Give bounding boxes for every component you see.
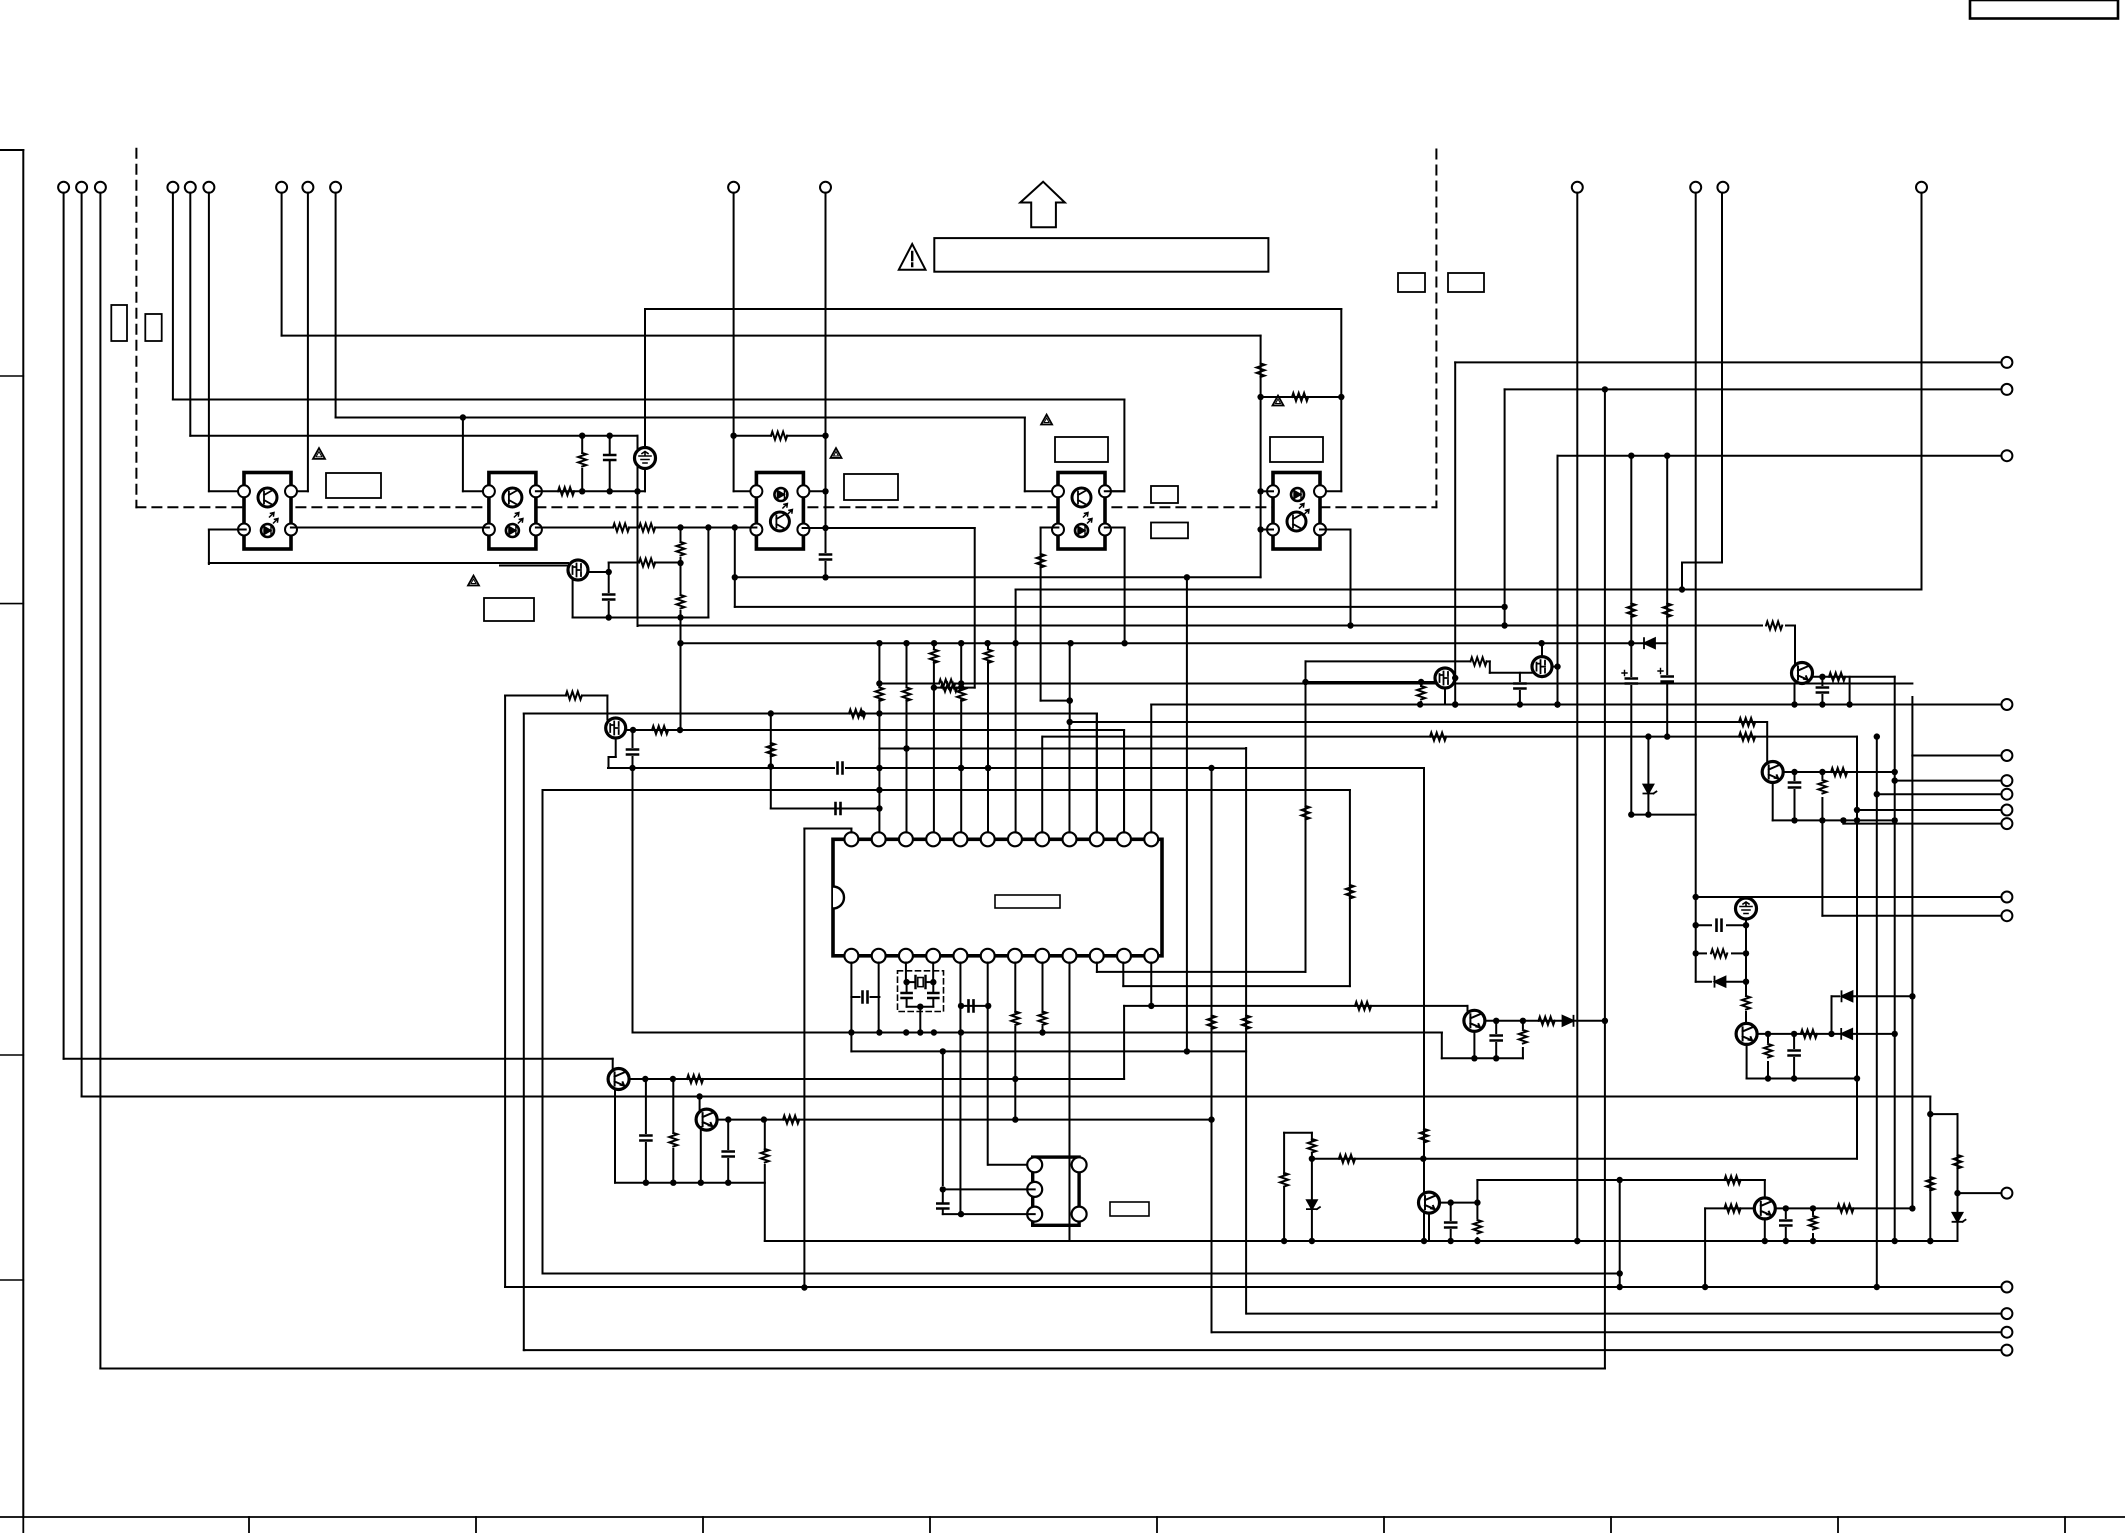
arrow up symbol — [1020, 182, 1065, 228]
net y397 — [1261, 394, 1345, 400]
warning triangle w2 — [468, 576, 479, 586]
net B — [1505, 386, 2002, 392]
resistor R26 h — [566, 692, 582, 700]
wire X2 mid — [940, 1186, 1035, 1192]
resistor R31 h — [1471, 657, 1487, 665]
wire T1 down — [63, 193, 65, 1059]
dashed barrier horizontal — [136, 506, 1436, 508]
wire T14 corner — [1679, 563, 1722, 593]
terminal circle P14 — [2001, 1308, 2012, 1319]
net y563b — [609, 562, 681, 564]
net A — [1455, 361, 2001, 363]
resistor Rg h — [1693, 949, 1750, 957]
wire T4 down — [172, 193, 174, 400]
net y1368 — [100, 1368, 1605, 1370]
wire Q2 drain drop pin11 — [1123, 730, 1125, 837]
resistor R111 v — [1764, 1034, 1772, 1082]
terminal circle S1 — [2001, 750, 2012, 761]
capacitor C1 — [603, 595, 614, 621]
label rect R1 — [1398, 273, 1425, 292]
dashed barrier vertical right — [1435, 150, 1437, 508]
transistor Q8 — [1464, 1010, 1485, 1031]
capacitor C111 — [1789, 1034, 1800, 1082]
resistor R12 h — [771, 432, 787, 440]
ic U1 top pin wires — [851, 705, 1151, 833]
wire PC1 RB to PC2 LB — [291, 527, 489, 529]
wire Q7 emitter — [717, 1116, 1215, 1122]
terminal circle S3 — [2001, 789, 2012, 800]
connector pin circle T11 — [820, 182, 831, 193]
capacitor Cm766 h — [838, 763, 843, 774]
wire x708 drop — [707, 528, 709, 618]
capacitor C34 — [1514, 673, 1525, 705]
wire PC4 RT riser — [1105, 490, 1125, 492]
net y915 — [1822, 915, 2001, 917]
pin4 column — [930, 643, 938, 832]
net m808 — [771, 805, 883, 811]
connector X2 pin 4 — [1072, 1157, 1087, 1172]
terminal circle S5 — [2001, 818, 2012, 829]
net y814 — [1631, 811, 1695, 817]
ground G2 — [1736, 898, 1757, 919]
connector pin circle T1 — [58, 182, 69, 193]
resistor R27 h — [941, 684, 957, 692]
net q67 rail — [615, 1182, 765, 1184]
net m768 — [608, 765, 1424, 771]
resistor R81 h — [1339, 1155, 1355, 1163]
net y714 drop pin10 — [1096, 714, 1098, 837]
pin5 column — [957, 643, 965, 832]
resistor R23a h — [613, 524, 629, 532]
wire x1247 drop — [1242, 748, 1250, 1314]
net y309 drop to U6 pin — [1319, 309, 1342, 491]
transistor Q2 — [606, 718, 626, 738]
connector pin circle T3 — [95, 182, 106, 193]
wire PC1 LB — [209, 530, 246, 565]
zener D2 — [1643, 737, 1656, 815]
net B drop — [1504, 389, 1506, 625]
wire Q4 right — [1552, 663, 1561, 669]
resistor R123 v — [1809, 1208, 1817, 1244]
connector X2 pin 3 — [1027, 1207, 1042, 1222]
warning note box — [934, 238, 1268, 272]
wire x1876 seg — [1874, 733, 1880, 1287]
wire x1260 drop — [1257, 336, 1263, 578]
ic pin7 wire — [1011, 963, 1019, 1120]
net y1096 — [82, 1093, 1931, 1099]
wire Q11 emitter — [1757, 1031, 1895, 1037]
connector pin circle T8 — [302, 182, 313, 193]
label U1 — [995, 895, 1060, 908]
net m683 — [876, 680, 1912, 686]
terminal circle CC — [2001, 450, 2012, 461]
wire Q7 base drop — [699, 1097, 701, 1113]
wire Q13 base — [1794, 626, 1796, 664]
resistor R24 h — [849, 710, 865, 718]
wire T15 down — [1921, 193, 1923, 589]
resistor R121 h — [1724, 1204, 1740, 1212]
wire Q4 top — [1541, 643, 1543, 656]
terminal circle B — [2001, 384, 2012, 395]
label rect R3 — [1151, 486, 1178, 503]
label rect R2 — [1448, 273, 1484, 292]
transistor Q1 — [568, 560, 588, 580]
wire x1957 drop — [1953, 1114, 1966, 1241]
resistor R131 h — [1829, 673, 1845, 681]
connector pin circle T15 — [1916, 182, 1927, 193]
wire x1186 seg — [1186, 577, 1188, 1051]
terminal circle G2a — [2001, 892, 2012, 903]
resistor R124 h — [1837, 1204, 1853, 1212]
net y1208 base — [1705, 1207, 1754, 1209]
wire T10 down — [730, 193, 736, 492]
wire PC3 RB chain — [803, 525, 975, 688]
resistor R62 v — [669, 1079, 677, 1186]
wire x523 drop — [523, 714, 525, 1351]
wire x770 seg — [767, 714, 775, 809]
net s810 — [1857, 809, 2001, 811]
net m706 — [1151, 701, 2001, 707]
wire PC2 RB to PC3 LB — [536, 524, 757, 530]
capacitor C91 — [1445, 1203, 1456, 1241]
wire Q6 bottom — [614, 1090, 616, 1183]
net yC — [336, 414, 1025, 420]
resistor Rm22 h — [1739, 718, 1755, 726]
net m790 — [543, 787, 1350, 793]
wire Q2 src cap — [609, 738, 616, 768]
label rect R4 — [1151, 523, 1188, 539]
net y820 — [1773, 817, 1895, 823]
crystal X1 — [903, 976, 936, 988]
resistor R32 v — [1417, 682, 1425, 705]
transistor Q3 — [1435, 668, 1455, 688]
net yB — [173, 399, 1125, 401]
net y1241 — [765, 1238, 1958, 1244]
net y1350 — [525, 1349, 2002, 1351]
wire Q3 bottom — [1444, 688, 1446, 705]
capacitor C131 — [1817, 677, 1828, 705]
label Q1 — [484, 598, 534, 621]
wire x505 drop — [504, 696, 506, 1288]
connector pin circle T2 — [76, 182, 87, 193]
wire x1857 seg — [1854, 737, 1860, 1159]
capacitor C11 on T11 — [820, 555, 831, 581]
wire Q12 emitter — [1775, 1205, 1912, 1211]
wire x1705 corner — [1704, 1208, 1706, 1287]
capacitor C2 — [627, 730, 638, 771]
wire Q8 bottom — [1471, 1032, 1477, 1062]
net y661 — [1306, 660, 1471, 662]
frame border left — [0, 150, 23, 1517]
ic U1 bottom pins — [844, 949, 1158, 963]
wire PC5 RB chain — [1320, 530, 1351, 626]
net yD drop — [637, 436, 639, 626]
wire x1912 seg — [1911, 697, 1913, 756]
connector pin circle T4 — [167, 182, 178, 193]
wire Q2 drain — [626, 727, 1124, 733]
warning triangle w1 — [313, 448, 325, 459]
wire Q1 source loop — [573, 579, 709, 618]
wire x804 long — [801, 829, 807, 1291]
wire stair Q8 — [1441, 1033, 1443, 1059]
wire PC5 LB stub — [1257, 526, 1273, 532]
wire T2 down — [81, 193, 83, 1097]
wire Q8 emitter — [1485, 1018, 1605, 1024]
wire Q3 gate — [1302, 679, 1435, 685]
wire PC4 LB chain — [1041, 528, 1073, 704]
ic U1 bottom pin wires — [851, 963, 1151, 1242]
terminal circle P16 — [2001, 1345, 2012, 1356]
wire T14 down — [1721, 193, 1723, 563]
capacitor C121 — [1780, 1208, 1791, 1244]
resistor R41 v — [1037, 554, 1045, 568]
capacitor C61 — [640, 1079, 651, 1186]
wire pin6 to X1 — [988, 1164, 1034, 1166]
net m722 — [1067, 719, 1767, 725]
wire gnd2 stem — [1742, 919, 1750, 1023]
net m748 — [879, 745, 1246, 751]
n-link x1284 x1312 — [1280, 1133, 1312, 1241]
net b997 cap — [851, 992, 879, 1003]
diode D81 — [1563, 1016, 1574, 1026]
label PC3 — [844, 474, 898, 500]
net s794 — [1877, 793, 2002, 795]
wire Q5 bottom — [1772, 783, 1774, 820]
frame row tick 3 — [0, 1054, 23, 1056]
wire x1124 chain — [1123, 1006, 1125, 1079]
connector pin circle T5 — [185, 182, 196, 193]
wire Q9 emitter — [1440, 1199, 1478, 1205]
connector pin circle T14 — [1717, 182, 1728, 193]
resistor R131b h — [1766, 622, 1782, 630]
frame bottom line — [0, 1516, 2125, 1518]
crystal caps — [902, 982, 939, 1007]
net y1078 — [1747, 1078, 1857, 1080]
capacitor C51 — [1789, 772, 1800, 824]
frame row tick 1 — [0, 375, 23, 377]
label PC1 — [326, 473, 381, 498]
wire T10 to U4 pin — [734, 490, 757, 492]
resistor R112 h — [1801, 1030, 1817, 1038]
terminal circle S2 — [2001, 775, 2012, 786]
net y714 — [524, 710, 1097, 716]
resistor R21 h — [558, 487, 574, 495]
wire x1070 seg — [1067, 643, 1073, 722]
wire T6 down to U2 pin — [209, 193, 246, 492]
ic pin10 wire — [1097, 963, 1306, 972]
wire PC5 LT — [1261, 490, 1273, 492]
resistor Rm683 h — [939, 680, 955, 688]
net y687 res — [934, 684, 975, 690]
net y1158 — [1312, 1156, 1857, 1162]
wire PC4 RB chain — [1105, 528, 1128, 647]
wire x1667 seg — [1663, 453, 1671, 675]
wire T11 down — [822, 193, 828, 552]
terminal circle A — [2001, 357, 2012, 368]
pin3 column — [903, 643, 911, 832]
net b1005 — [958, 1003, 992, 1009]
wire x1930 drop — [1926, 1097, 1934, 1245]
terminal circle M1 — [2001, 699, 2012, 710]
warning triangle w5 — [1273, 396, 1284, 406]
resistor R22 v — [578, 438, 586, 491]
frame row tick 4 — [0, 1279, 23, 1281]
capacitor C83 — [1491, 1021, 1502, 1062]
terminal circle G2b — [2001, 910, 2012, 921]
resistor R54 v — [1818, 772, 1826, 824]
wire gnd1 stem — [644, 309, 646, 491]
wire T9 down — [335, 193, 337, 418]
resistor R71 h — [783, 1116, 799, 1124]
wire Q1 gate — [500, 565, 568, 567]
wire PC2 RT chain — [536, 488, 645, 494]
transistor Q5 — [1762, 762, 1783, 783]
capacitor Cb1 h — [969, 1000, 974, 1011]
wire Q5 emitter — [1783, 769, 1898, 775]
transistor Q4 — [1532, 657, 1552, 677]
connector pin circle T10 — [728, 182, 739, 193]
optocoupler PC1 — [238, 473, 297, 550]
wire x1849 seg — [1849, 677, 1851, 705]
wire Q7 bottom — [698, 1127, 704, 1186]
label PC5 — [1270, 437, 1323, 462]
net y1114 — [1930, 1113, 1957, 1115]
label X2 — [1110, 1202, 1149, 1216]
connector X2 body — [1033, 1157, 1079, 1225]
net A drop — [1452, 362, 1458, 707]
ic U1 top pins — [844, 832, 1158, 846]
capacitor C71 — [723, 1120, 734, 1186]
connector X2 pin 2 — [1027, 1182, 1042, 1197]
wire Q6 emitter — [629, 1076, 1124, 1082]
transistor Q9 — [1419, 1192, 1440, 1213]
label rect L2 — [145, 314, 161, 341]
net y436 res wire — [734, 435, 826, 437]
connector pin circle T13 — [1690, 182, 1701, 193]
net yC drop to U5 pin — [1025, 418, 1059, 492]
ground G1 — [635, 448, 656, 469]
net yB drop to U5 pin — [1105, 400, 1125, 492]
capacitor Cg h — [1693, 920, 1750, 931]
diode D111 — [1841, 1029, 1852, 1039]
resistor R52 h — [1292, 393, 1308, 401]
wire T5 down — [189, 193, 191, 436]
ic pin8 wire — [1039, 963, 1047, 1033]
wire x632 drop — [632, 768, 634, 1033]
net y1275 — [543, 1273, 1620, 1275]
wire X2 bot — [943, 1211, 1035, 1217]
net y1286 — [505, 1284, 2001, 1290]
net y643 — [680, 640, 1667, 646]
wire x1822 seg — [1821, 820, 1823, 915]
pin2 column — [875, 643, 883, 832]
net m828 — [804, 828, 851, 830]
net y1193 — [1958, 1192, 2002, 1194]
net y1313 — [1247, 1313, 2001, 1315]
capacitor C82 pol — [1658, 669, 1673, 737]
wire T13 down — [1693, 193, 1699, 982]
wire T11 to U4 pin — [803, 490, 826, 492]
wire Q9 stair — [1474, 1180, 1480, 1206]
connector pin circle T6 — [203, 182, 214, 193]
wire x1841 seg — [1840, 817, 1846, 823]
wire T3 down — [99, 193, 101, 1369]
wire T7 down — [281, 193, 283, 336]
wire x1211 drop — [1208, 767, 1216, 1333]
transistor Q12 — [1754, 1198, 1775, 1219]
wire Q12 base top — [1764, 1180, 1766, 1197]
transistor Q6 — [608, 1069, 629, 1090]
transistor Q11 — [1736, 1023, 1757, 1044]
connector X2 pin 5 — [1072, 1207, 1087, 1222]
net C — [1558, 453, 2002, 459]
resistor R91 v — [1473, 1203, 1481, 1241]
capacitor C81 pol — [1622, 671, 1637, 818]
label PC4 — [1055, 437, 1108, 462]
resistor R61 h — [687, 1075, 703, 1083]
resistor R51 v — [1257, 364, 1265, 378]
warning triangle big — [899, 244, 926, 270]
net yJ — [638, 622, 1796, 628]
net y1180 — [1477, 1177, 1764, 1183]
wire Q12 bottom — [1762, 1219, 1768, 1244]
net s823 — [1843, 823, 2001, 825]
resistor R23b h — [639, 524, 655, 532]
wire Q11 bottom — [1746, 1045, 1748, 1079]
connector X2 pin 1 — [1027, 1157, 1042, 1172]
net y309 — [645, 308, 1341, 310]
resistor R53 h — [1831, 768, 1847, 776]
pin6 column — [984, 643, 992, 832]
wire x542 drop — [542, 790, 544, 1274]
diode D1 — [1644, 638, 1655, 648]
net y1332 — [1212, 1331, 2002, 1333]
wire x1312 seg — [1307, 1133, 1320, 1241]
wire x1619 drop — [1617, 1180, 1623, 1287]
wire T12 down — [1574, 193, 1580, 1244]
wire x1858 seg2 — [1854, 807, 1860, 813]
wire Q1 drain — [588, 563, 612, 593]
net s780 — [1896, 780, 2002, 782]
dashed barrier vertical left — [135, 149, 137, 507]
resistor Rm36b h — [1739, 733, 1755, 741]
optocoupler PC3 — [750, 473, 809, 550]
resistor Rm36a h — [1430, 733, 1446, 741]
net s755 — [1912, 755, 2001, 757]
ic U1 body — [833, 839, 1162, 956]
net y897 — [1696, 896, 2002, 898]
transistor Q13 — [1792, 663, 1813, 684]
resistor R25 h — [652, 726, 668, 734]
connector pin circle T12 — [1572, 182, 1583, 193]
wire T8 down to U2 pin — [292, 193, 308, 492]
resistor Rb1 h — [1355, 1002, 1371, 1010]
wire Q2 gate — [606, 696, 608, 720]
terminal circle S4 — [2001, 805, 2012, 816]
diode D112 branch — [1828, 991, 1915, 1037]
transistor Q7 — [696, 1109, 717, 1130]
wire dot463 drop to U3 pin — [463, 418, 484, 492]
frame row tick 2 — [0, 603, 23, 605]
wire x680 chain — [677, 528, 685, 731]
resistor R82 h — [1539, 1017, 1555, 1025]
optocoupler PC5 — [1267, 473, 1326, 550]
wire Q13 bottom — [1794, 684, 1796, 705]
frame bottom column ticks — [23, 1517, 2065, 1533]
wire x734 drop — [732, 528, 738, 607]
wire Q9 base — [1423, 1159, 1425, 1192]
optocoupler PC2 — [483, 473, 542, 550]
